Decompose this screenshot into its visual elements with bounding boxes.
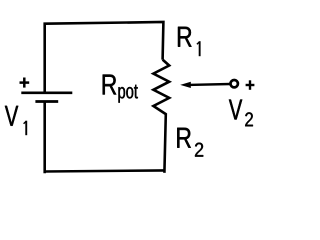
- label R2: [177, 128, 203, 157]
- label R1: [178, 27, 201, 56]
- wiper arrowhead: [180, 82, 191, 88]
- label V2: [229, 100, 253, 127]
- battery V1 short plate (negative): [35, 100, 58, 103]
- wiper arrow line: [189, 83, 231, 86]
- terminal circle V2: [231, 80, 238, 87]
- plus sign at battery positive: [20, 78, 30, 88]
- wire bottom (bottom wire + left lower vertical): [45, 102, 165, 174]
- label Rpot: [103, 75, 138, 103]
- potentiometer Rpot zigzag: [153, 60, 169, 173]
- battery V1 long plate (positive): [21, 91, 72, 94]
- label V1: [5, 106, 27, 135]
- wire top loop (left vertical + top wire + right vertical): [45, 22, 164, 92]
- plus sign at V2: [246, 80, 255, 90]
